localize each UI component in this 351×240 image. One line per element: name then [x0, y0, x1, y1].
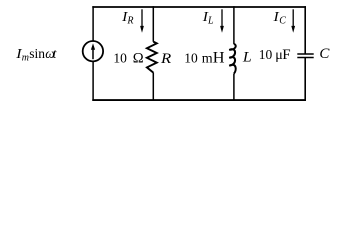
svg-text:R: R [160, 51, 171, 67]
svg-text:Ω: Ω [133, 50, 144, 66]
svg-text:10: 10 [259, 47, 273, 62]
svg-text:L: L [207, 16, 214, 27]
svg-text:F: F [282, 47, 290, 63]
svg-text:H: H [213, 50, 225, 67]
svg-text:10: 10 [113, 50, 127, 65]
svg-text:C: C [279, 16, 286, 27]
svg-text:t: t [53, 46, 58, 61]
svg-text:R: R [126, 16, 133, 27]
svg-text:10: 10 [184, 51, 198, 66]
svg-text:L: L [242, 49, 252, 65]
svg-text:sin: sin [29, 46, 45, 61]
svg-text:m: m [22, 53, 29, 64]
svg-text:m: m [202, 52, 213, 67]
svg-text:C: C [319, 46, 330, 62]
